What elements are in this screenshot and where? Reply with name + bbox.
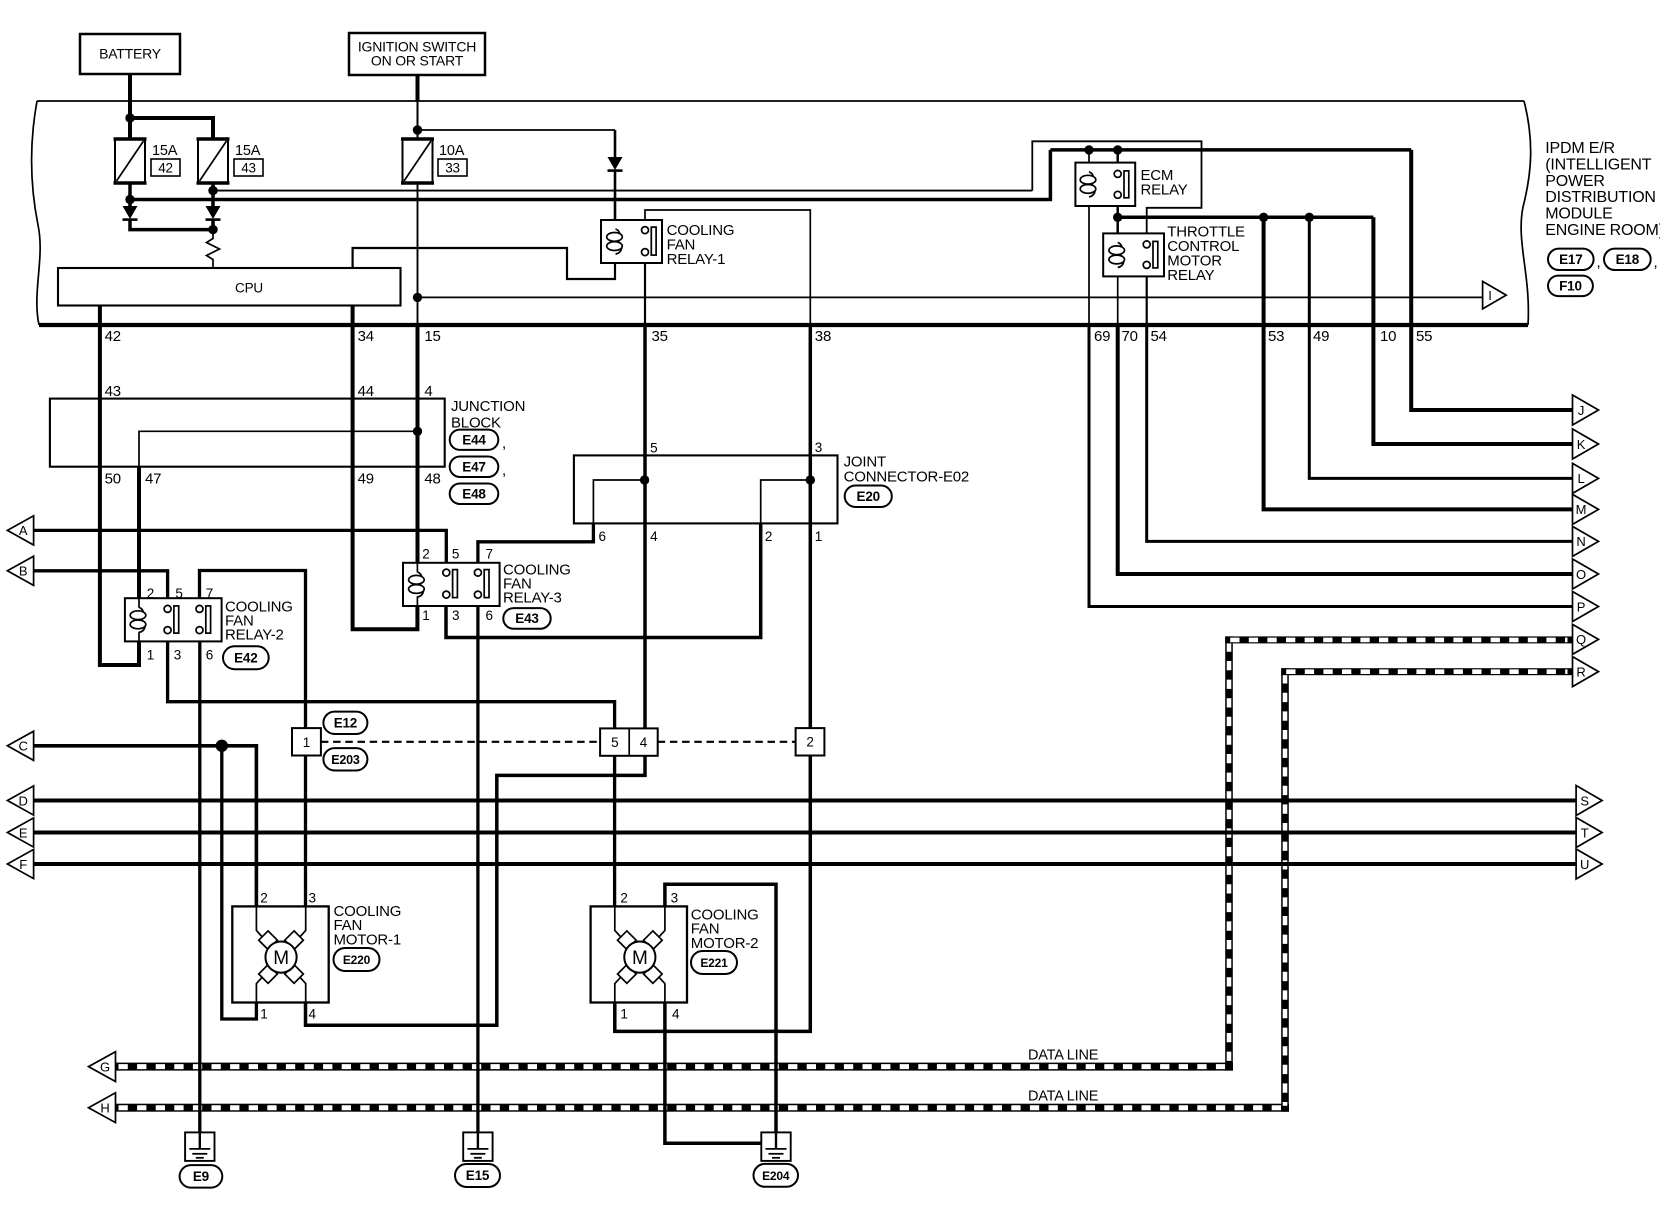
arrow T (1576, 818, 1602, 848)
svg-text:E17: E17 (1559, 252, 1582, 267)
wire fuse 43 output thin bus to ECM area (213, 190, 1032, 192)
connector oval E221 (691, 951, 737, 974)
svg-text:Q: Q (1576, 632, 1586, 647)
svg-text:RELAY-2: RELAY-2 (225, 627, 284, 644)
wire E line (34, 831, 1577, 835)
wire terminal 15 junction block 4-48 to relay-3 coil pin2 (416, 323, 420, 563)
arrow K (1573, 429, 1599, 459)
svg-text:CONNECTOR-E02: CONNECTOR-E02 (844, 468, 969, 485)
svg-text:E20: E20 (857, 489, 880, 504)
svg-text:70: 70 (1122, 328, 1138, 345)
ground E9 (185, 1132, 214, 1161)
connector oval E220 (334, 948, 380, 971)
svg-text:E15: E15 (466, 1168, 490, 1183)
wire ECM relay coil to terminal 69 (1088, 196, 1090, 323)
wire connector E12/E203 pin5 to motor-2 pin2 (613, 756, 616, 907)
svg-text:1: 1 (815, 529, 822, 544)
svg-text:,: , (502, 462, 506, 479)
svg-text:RELAY-1: RELAY-1 (667, 251, 726, 268)
svg-text:CPU: CPU (235, 281, 263, 296)
svg-text:2: 2 (765, 529, 772, 544)
connector oval F10 (1548, 276, 1593, 297)
svg-text:U: U (1580, 857, 1589, 872)
svg-text:E18: E18 (1616, 252, 1640, 267)
svg-text:2: 2 (147, 586, 154, 601)
arrow Q (1573, 624, 1599, 654)
connector box E12/E203 pin 2 (796, 728, 825, 755)
wire relay-3 pin3 to joint connector pin2 (446, 523, 761, 637)
svg-text:E204: E204 (762, 1169, 790, 1183)
node fuse42 output (125, 195, 134, 204)
wire terminal 55 to J (1411, 150, 1572, 410)
svg-text:54: 54 (1151, 328, 1167, 345)
arrow C (7, 731, 33, 760)
arrow R (1573, 657, 1599, 687)
wire fuse 43 to diode (211, 183, 215, 206)
wire CPU notch to cooling fan relay-1 coil (353, 248, 615, 279)
svg-text:5: 5 (175, 586, 182, 601)
wire B to relay-2 pin5 (34, 571, 168, 606)
diode D1 under fuse 42 (123, 206, 138, 219)
connector oval E17 (1548, 249, 1594, 270)
svg-text:E9: E9 (193, 1169, 209, 1184)
wire C to motor-1 pin2 (34, 746, 257, 907)
diode D3 to cooling fan relay-1 (608, 157, 623, 170)
wire CPU 42 junction block 43-50 to relay-2 pin1 (100, 306, 139, 666)
svg-text:42: 42 (105, 328, 121, 345)
wire A to relay-3 pin5 (34, 530, 447, 569)
wire Q dashed horizontal (1225, 636, 1572, 643)
wire CPU 34 junction block 44-49 to relay-3 pin1 (353, 306, 418, 630)
svg-text:43: 43 (241, 161, 256, 176)
svg-text:M: M (632, 948, 648, 969)
wire fuse 42 to diode (128, 183, 132, 206)
svg-text:4: 4 (424, 383, 432, 400)
connector oval E18 (1604, 249, 1651, 270)
wire C branch to motor-1 pin1 (222, 746, 257, 1019)
svg-text:DISTRIBUTION: DISTRIBUTION (1545, 189, 1656, 206)
svg-text:DATA LINE: DATA LINE (1028, 1089, 1099, 1105)
wire ECM relay coil top (1088, 150, 1090, 172)
node ECM feed contact (1113, 145, 1122, 154)
svg-text:ON OR START: ON OR START (371, 53, 464, 69)
connector dashed line E12/E203 (321, 741, 600, 743)
arrow S (1576, 786, 1602, 816)
svg-text:50: 50 (105, 471, 121, 488)
wire diode to relay-1 coil (614, 130, 617, 157)
wire throttle contact to terminal 54 (1146, 269, 1148, 324)
connector oval E15 (455, 1164, 500, 1187)
wire terminal 53 to M (1264, 217, 1573, 509)
svg-text:M: M (273, 948, 289, 969)
svg-text:K: K (1577, 437, 1586, 452)
arrow P (1573, 592, 1599, 622)
throttle control motor relay box (1103, 233, 1164, 276)
node ignition branch (413, 125, 422, 134)
svg-text:53: 53 (1268, 328, 1284, 345)
svg-text:L: L (1577, 471, 1584, 486)
svg-text:4: 4 (650, 529, 658, 544)
node fuse43 output (208, 186, 217, 195)
joint connector internal link pin5-6 (640, 475, 649, 484)
svg-text:5: 5 (452, 547, 459, 562)
dashed link R vertical (1281, 668, 1289, 1111)
svg-text:BATTERY: BATTERY (99, 46, 162, 62)
ignition switch box (349, 33, 485, 75)
svg-text:3: 3 (671, 891, 678, 906)
svg-text:10A: 10A (439, 143, 465, 159)
resistor to CPU (207, 230, 220, 268)
svg-text:DATA LINE: DATA LINE (1028, 1048, 1099, 1064)
svg-text:1: 1 (422, 608, 429, 623)
svg-text:38: 38 (815, 328, 831, 345)
svg-text:E43: E43 (515, 611, 539, 626)
dashed link Q vertical (1225, 636, 1233, 1070)
svg-text:1: 1 (147, 648, 154, 663)
node ECM contact bus (1113, 213, 1122, 222)
connector oval E12 (323, 712, 367, 734)
IPDM E/R module wavy right edge (1521, 101, 1531, 325)
junction block internal link (413, 427, 422, 436)
wire terminal 70 to O (1118, 323, 1573, 574)
cooling fan motor-1 (motor symbol) (232, 906, 328, 1002)
wire relay-2 pin6 to ground E9 (198, 634, 201, 1148)
svg-text:E: E (19, 825, 28, 840)
wire relay-1 contact to terminal 35 (644, 256, 646, 323)
data line G dashed (114, 1063, 1234, 1071)
connector oval E204 (754, 1164, 799, 1187)
svg-text:3: 3 (174, 648, 181, 663)
svg-text:2: 2 (422, 547, 429, 562)
wire thin path fuse43 to throttle relay contact (1032, 141, 1201, 241)
svg-text:N: N (1576, 534, 1585, 549)
svg-text:6: 6 (206, 648, 213, 663)
fuse 42 15A (115, 139, 145, 183)
wire terminal 10 to K (1373, 217, 1572, 444)
svg-text:MOTOR-2: MOTOR-2 (691, 935, 759, 952)
svg-text:B: B (19, 564, 27, 579)
svg-text:E44: E44 (462, 432, 486, 447)
wire terminal 35 through joint connector 5-4 to connector E203 pin4 (643, 323, 647, 728)
svg-text:55: 55 (1416, 328, 1432, 345)
junction block box (50, 399, 445, 467)
svg-text:E48: E48 (462, 486, 486, 501)
svg-text:J: J (1578, 403, 1584, 418)
ground E15 (463, 1132, 492, 1161)
cooling fan relay-2 box (125, 598, 222, 641)
svg-text:T: T (1581, 825, 1589, 840)
connector oval E43 (503, 608, 550, 629)
wire ECM contact bus to terminals 53 49 10 (1118, 216, 1374, 220)
svg-text:O: O (1576, 567, 1586, 582)
wire node ignition branch to diode line (418, 129, 616, 131)
svg-text:POWER: POWER (1545, 173, 1604, 190)
node bus terminal 53 (1259, 213, 1268, 222)
cooling fan relay-3 contact 7-6 (474, 569, 481, 576)
connector oval E42 (223, 646, 269, 669)
svg-text:44: 44 (358, 383, 374, 400)
cooling fan relay-3 coil (416, 563, 418, 573)
arrow U (1576, 849, 1602, 879)
diode D2 under fuse 43 (206, 206, 221, 219)
svg-text:F10: F10 (1559, 278, 1582, 293)
cooling fan relay-2 contact 7-6 (196, 605, 203, 612)
wire motor-2 pin3 to ground E204 (665, 884, 776, 1148)
wire terminal 49 to L (1309, 217, 1572, 478)
svg-text:3: 3 (309, 891, 316, 906)
wire fuse 42 output thick bus to ECM relay feed (130, 150, 1050, 200)
svg-text:3: 3 (815, 440, 822, 455)
fuse 33 10A (403, 139, 433, 183)
svg-text:E220: E220 (343, 953, 371, 967)
node terminal 15 I-line branch (413, 293, 422, 302)
cooling fan relay-2 contact 5-3 (164, 605, 171, 612)
op-amp none - relay coil cooling fan relay-1 (601, 220, 662, 263)
arrow M (1573, 494, 1599, 524)
svg-text:3: 3 (452, 608, 459, 623)
arrow N (1573, 526, 1599, 556)
node battery branch (125, 113, 134, 122)
wire connector E12/E203 pin1 to cooling fan motor-1 pin3 (304, 756, 307, 907)
svg-text:E203: E203 (331, 753, 360, 767)
connector box E12/E203 pin 1 (292, 728, 321, 755)
wire throttle relay coil top (1116, 217, 1119, 243)
svg-text:C: C (18, 739, 27, 754)
svg-text:49: 49 (358, 471, 374, 488)
wire ignition switch to module (416, 75, 420, 101)
svg-text:4: 4 (309, 1007, 317, 1022)
svg-text:A: A (19, 523, 28, 538)
svg-text:E42: E42 (234, 650, 257, 665)
wire R dashed horizontal (1281, 668, 1572, 675)
fuse 43 15A (198, 139, 228, 183)
wire terminal 38 through joint connector 3-1 to connector E203 pin2 (809, 323, 813, 728)
svg-text:48: 48 (424, 471, 440, 488)
wire terminal 54 to N (1147, 323, 1573, 541)
svg-text:2: 2 (620, 891, 627, 906)
svg-text:2: 2 (260, 891, 267, 906)
wire throttle relay coil to terminal 70 (1117, 267, 1119, 323)
svg-text:2: 2 (806, 735, 813, 750)
arrow B (7, 556, 33, 585)
svg-text:,: , (1654, 254, 1658, 271)
wire relay-3 pin6 to ground E15 (476, 598, 479, 1148)
wire D line (34, 799, 1577, 803)
svg-text:IPDM E/R: IPDM E/R (1545, 140, 1615, 157)
svg-text:47: 47 (145, 471, 161, 488)
svg-text:M: M (1576, 502, 1587, 517)
svg-text:34: 34 (358, 328, 374, 345)
wire connector E203 pin2 to motor-2 pin1 (615, 756, 811, 1032)
wire F line (34, 862, 1577, 866)
arrow F (7, 849, 33, 878)
connector oval E48 (450, 484, 499, 505)
arrow I (1483, 281, 1507, 309)
IPDM E/R module outline bottom edge (39, 323, 1528, 327)
svg-text:F: F (19, 857, 27, 872)
cooling fan relay-2 coil (138, 598, 140, 608)
data line H dashed (114, 1104, 1290, 1112)
svg-text:E12: E12 (334, 715, 357, 730)
svg-text:42: 42 (158, 161, 173, 176)
cooling fan relay-1 contact (642, 227, 649, 234)
wire junction block 47 to relay-2 coil pin2 (137, 467, 141, 599)
svg-text:P: P (1577, 599, 1585, 614)
arrow J (1573, 395, 1599, 425)
arrow E (7, 818, 33, 847)
svg-text:6: 6 (486, 608, 493, 623)
svg-text:G: G (100, 1059, 110, 1074)
svg-text:7: 7 (206, 586, 213, 601)
wire I-line inside module (418, 296, 1483, 298)
svg-text:1: 1 (260, 1007, 267, 1022)
svg-text:33: 33 (445, 161, 460, 176)
arrow G (89, 1052, 116, 1082)
ECM relay contact (1114, 170, 1121, 177)
svg-text:10: 10 (1380, 328, 1396, 345)
wire relay-2 pin3 to connector E12/E203 pin5 (168, 634, 615, 729)
svg-text:7: 7 (486, 547, 493, 562)
arrow A (7, 516, 33, 545)
cooling fan relay-3 contact 5-3 (443, 569, 450, 576)
svg-text:(INTELLIGENT: (INTELLIGENT (1545, 156, 1651, 173)
IPDM E/R module wavy left edge (31, 101, 40, 325)
svg-text:15A: 15A (235, 143, 261, 159)
svg-text:MOTOR-1: MOTOR-1 (334, 932, 402, 949)
cooling fan relay-3 box (403, 563, 500, 606)
ground E204 (761, 1132, 790, 1161)
wire ECM relay contact pins (1116, 150, 1119, 170)
connector oval E44 (450, 430, 499, 450)
wire diode outputs junction bus (130, 219, 213, 230)
arrow L (1573, 463, 1599, 493)
connector box E12/E203 pins 5 4 (600, 728, 658, 755)
wire relay-1 contact to terminal 38 (645, 210, 810, 323)
wire relay-3 pin7 to joint connector pin6 (478, 523, 594, 569)
node ECM feed coil (1084, 145, 1093, 154)
wire terminal 69 to P (1089, 323, 1573, 607)
svg-text:49: 49 (1313, 328, 1329, 345)
svg-text:,: , (1597, 254, 1601, 271)
joint connector-E02 box (574, 455, 838, 523)
wire relay-2 pin7 to connector E12/E203 pin1 (200, 571, 306, 729)
svg-text:E47: E47 (462, 459, 485, 474)
svg-text:RELAY: RELAY (1167, 267, 1214, 284)
svg-text:1: 1 (303, 735, 310, 750)
wire connector E203 pin4 to motor-1 pin4 (306, 756, 646, 1026)
svg-text:ENGINE ROOM): ENGINE ROOM) (1545, 222, 1660, 239)
svg-text:43: 43 (105, 383, 121, 400)
connector oval E47 (450, 457, 499, 478)
arrow O (1573, 559, 1599, 589)
wire ignition inside module to fuse 33 (417, 101, 419, 139)
wire battery to fuses (128, 74, 132, 139)
svg-text:E221: E221 (700, 956, 728, 970)
svg-text:I: I (1488, 288, 1491, 303)
connector oval E9 (180, 1165, 223, 1188)
svg-text:15A: 15A (152, 143, 178, 159)
wire ECM relay feed bus (1050, 148, 1411, 152)
svg-text:R: R (1576, 664, 1585, 679)
svg-text:1: 1 (620, 1007, 627, 1022)
IPDM E/R module outline top edge (37, 100, 1524, 102)
node ground E204 junction (771, 1138, 781, 1148)
cooling fan motor-2 (motor symbol) (591, 906, 687, 1002)
CPU box (58, 268, 401, 306)
node diode bus (208, 225, 217, 234)
svg-text:D: D (18, 793, 27, 808)
svg-text:5: 5 (611, 735, 618, 750)
wire motor-2 pin4 to ground E204 (665, 1003, 776, 1144)
svg-text:5: 5 (650, 441, 657, 456)
svg-text:69: 69 (1094, 328, 1110, 345)
arrow D (7, 786, 33, 815)
svg-text:,: , (502, 435, 506, 452)
connector oval E20 (845, 486, 892, 508)
svg-text:35: 35 (652, 328, 668, 345)
node bus terminal 49 (1305, 213, 1314, 222)
svg-text:4: 4 (672, 1007, 680, 1022)
svg-text:MODULE: MODULE (1545, 206, 1612, 223)
node C branch (216, 740, 228, 752)
svg-text:RELAY-3: RELAY-3 (503, 590, 562, 607)
ECM relay box (1075, 163, 1135, 206)
arrow H (89, 1093, 116, 1123)
throttle control motor relay contact (1143, 241, 1150, 248)
connector oval E203 (323, 748, 367, 770)
svg-text:15: 15 (424, 328, 440, 345)
joint connector internal link pin3-2 (806, 475, 815, 484)
svg-text:S: S (1580, 793, 1589, 808)
svg-text:H: H (100, 1101, 109, 1116)
svg-text:JUNCTION: JUNCTION (451, 398, 525, 415)
svg-text:6: 6 (599, 529, 606, 544)
svg-text:RELAY: RELAY (1141, 182, 1188, 199)
svg-text:4: 4 (640, 735, 648, 750)
battery box (80, 34, 180, 74)
wire fuse 33 to terminal 15 (417, 183, 419, 323)
